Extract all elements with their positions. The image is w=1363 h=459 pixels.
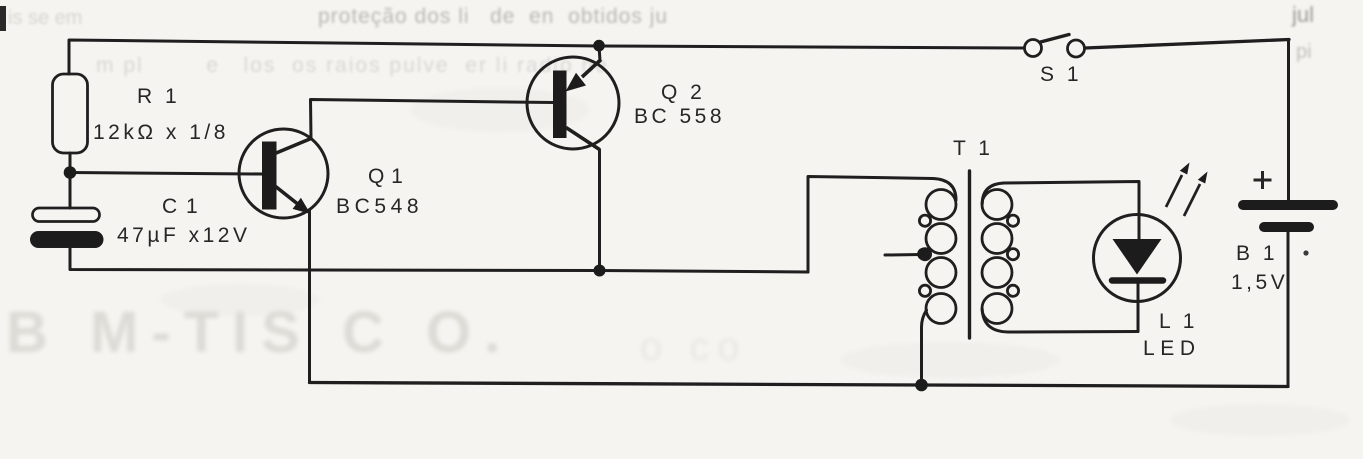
LED light arrow 1 — [1166, 175, 1182, 207]
transformer T1 primary loops — [919, 190, 956, 324]
wire base node to Q1 — [70, 173, 262, 175]
junction node primary center tap — [917, 248, 930, 261]
LED L1 cathode bar — [1112, 277, 1163, 284]
svg-text:is se em: is se em — [8, 7, 82, 29]
LED light arrow 2 — [1184, 184, 1200, 216]
wire primary center tap — [885, 253, 921, 257]
switch S1 — [1025, 35, 1085, 58]
wire top rail left of S1 — [69, 40, 1024, 74]
transistor Q2 emitter diagonal with arrow (PNP) — [582, 60, 601, 78]
capacitor C1 bottom plate — [31, 232, 104, 248]
stray dot near battery — [1303, 250, 1308, 255]
wire Q1 emitter down to bottom rail — [308, 210, 311, 383]
resistor R1 — [53, 74, 88, 153]
junction node Q2 emitter / top rail — [593, 40, 605, 52]
transistor Q1 circle — [239, 129, 328, 218]
capacitor C1 top plate — [33, 208, 100, 222]
LED L1 circle — [1094, 215, 1181, 302]
battery B1 wire top — [1287, 40, 1290, 201]
svg-text:o co: o co — [640, 325, 748, 369]
junction node primary bottom / bottom rail — [915, 379, 928, 392]
svg-text:B M-TIS C O.: B M-TIS C O. — [6, 300, 513, 365]
battery B1 negative plate — [1259, 222, 1314, 232]
svg-text:47µF x12V: 47µF x12V — [117, 224, 251, 247]
svg-text:Q 2: Q 2 — [661, 81, 705, 104]
svg-text:B 1: B 1 — [1236, 242, 1278, 265]
transformer T1 secondary entry corner — [982, 183, 1004, 204]
wire LED bottom — [1137, 284, 1140, 332]
wire secondary bottom to LED bottom — [982, 309, 1138, 332]
svg-text:1,5V: 1,5V — [1231, 271, 1288, 294]
wire bottom rail — [310, 383, 1289, 387]
junction node R1/C1/Q1 base — [64, 166, 77, 179]
svg-text:Q 1: Q 1 — [368, 165, 403, 188]
wire Q2 collector down to mid rail — [598, 150, 601, 271]
battery B1 positive plate — [1238, 200, 1338, 210]
wire R1 bottom to node — [69, 153, 72, 208]
transistor Q2 collector diagonal — [566, 128, 600, 150]
wire secondary top to LED top — [1004, 182, 1139, 240]
transistor Q2 base bar — [553, 71, 567, 139]
wire Q2 emitter to top rail — [599, 46, 600, 61]
svg-text:12kΩ x 1/8: 12kΩ x 1/8 — [93, 121, 229, 144]
svg-text:C 1: C 1 — [162, 195, 199, 218]
wire C1 bottom to mid rail — [70, 248, 808, 273]
svg-text:proteção dos li de en obti: proteção dos li de en obtidos ju — [318, 5, 668, 28]
junction node Q2 collector / mid rail — [594, 265, 606, 277]
transformer T1 secondary loops — [982, 190, 1019, 324]
wire Q1 collector to Q2 base — [311, 100, 554, 139]
svg-text:jul: jul — [1291, 2, 1314, 27]
battery B1 wire bottom — [1287, 232, 1290, 387]
transistor Q1 base bar — [262, 142, 277, 210]
transformer T1 core — [968, 171, 971, 338]
svg-text:pi: pi — [1296, 41, 1312, 63]
svg-text:L 1: L 1 — [1159, 310, 1198, 333]
LED L1 triangle — [1113, 239, 1162, 275]
transistor Q1 emitter diagonal with arrow — [275, 186, 299, 205]
wire primary bottom to bottom rail — [922, 310, 927, 385]
svg-text:BC 558: BC 558 — [634, 105, 725, 128]
svg-text:S 1: S 1 — [1040, 63, 1082, 86]
transistor Q1 collector diagonal — [275, 139, 311, 154]
svg-text:LED: LED — [1143, 337, 1201, 360]
wire top rail right of S1 — [1085, 40, 1289, 49]
svg-text:T 1: T 1 — [953, 137, 993, 160]
scan edge mark top-left — [0, 6, 6, 31]
svg-text:R 1: R 1 — [137, 85, 180, 108]
battery plus sign — [1254, 171, 1272, 189]
transistor Q2 circle — [527, 57, 619, 149]
wire mid rail up to primary top — [808, 177, 933, 273]
svg-text:BC548: BC548 — [336, 195, 423, 218]
svg-text:m pl e los os raios: m pl e los os raios pulve er li radio ne — [96, 54, 609, 77]
transformer T1 primary entry corner — [933, 179, 956, 201]
